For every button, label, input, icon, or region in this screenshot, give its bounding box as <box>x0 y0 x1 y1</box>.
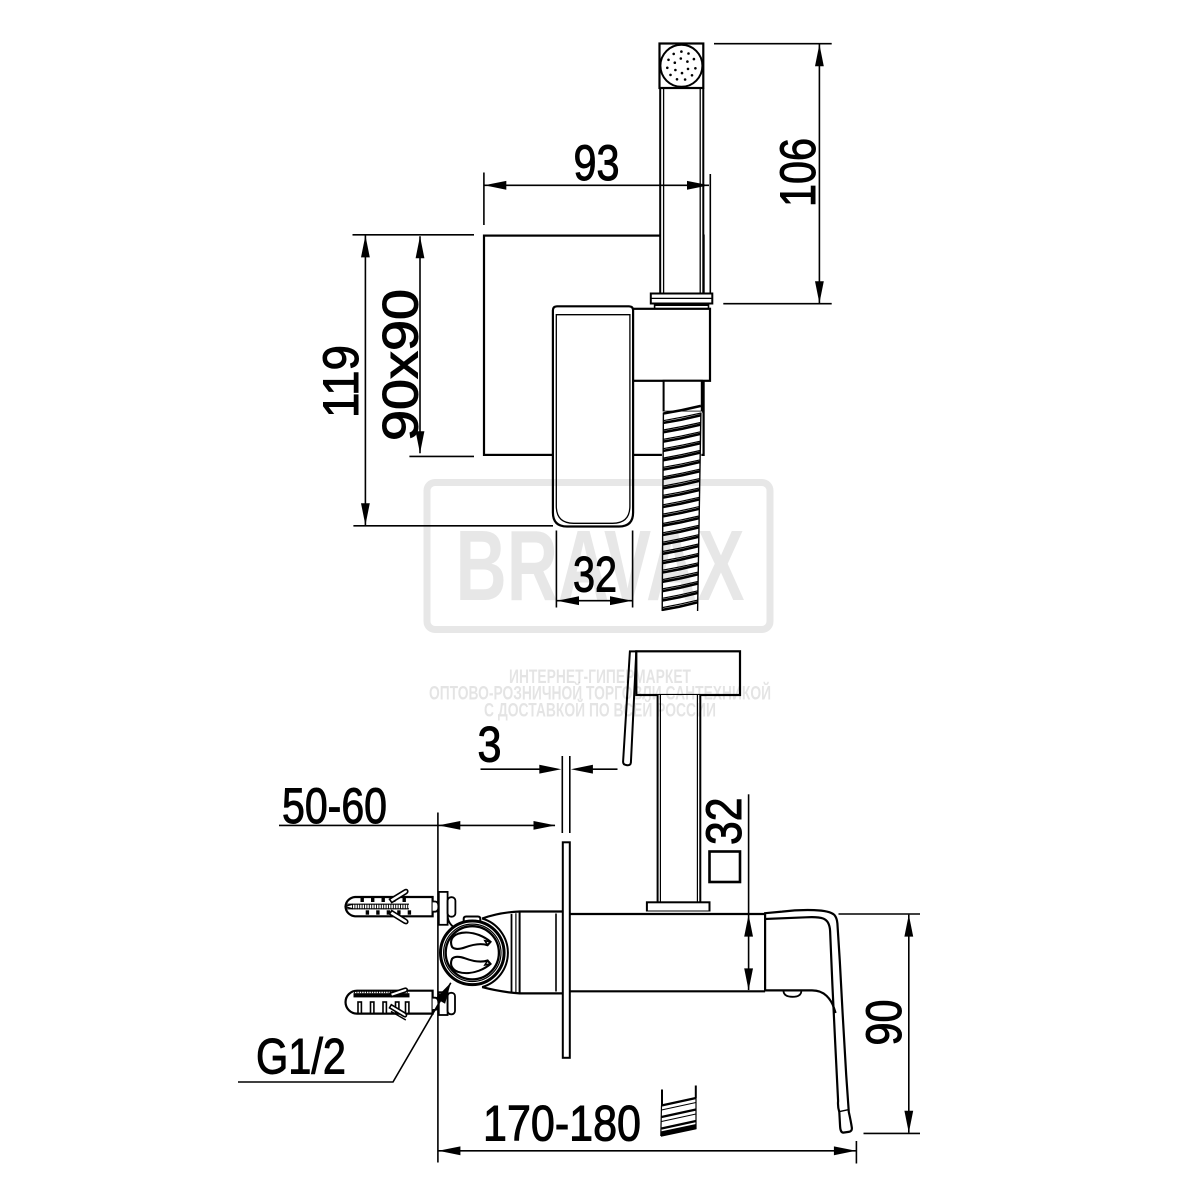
svg-text:93: 93 <box>574 135 620 191</box>
sprayer head (side view) <box>636 651 740 695</box>
svg-text:119: 119 <box>313 345 369 418</box>
svg-text:106: 106 <box>770 138 826 207</box>
sprayer trigger lever (side view) <box>623 651 636 765</box>
wall plate 90x90 (front view) <box>484 236 704 455</box>
svg-text:170-180: 170-180 <box>483 1096 641 1152</box>
dimension 32 (lever width) <box>556 531 632 608</box>
dimension 106 (vertical right) <box>714 44 832 304</box>
flexible hose (front view, spiral) <box>661 406 702 612</box>
lower mounting bracket and screw head <box>439 992 455 1015</box>
lower wall anchor with screw <box>346 988 439 1020</box>
svg-text:32: 32 <box>696 797 752 845</box>
upper mounting bracket and screw head <box>439 892 456 925</box>
svg-text:BRAVAX: BRAVAX <box>456 510 745 622</box>
mixer body (side view) <box>482 912 765 994</box>
dimension 90x90 (vertical) <box>409 236 474 456</box>
mixer lever (front view) <box>553 306 633 526</box>
wall reference line <box>437 813 439 1163</box>
dimension 50-60 (wall to plate) <box>279 824 555 826</box>
svg-text:С ДОСТАВКОЙ ПО ВСЕЙ РОССИИ: С ДОСТАВКОЙ ПО ВСЕЙ РОССИИ <box>484 698 716 722</box>
hose connector nut (front view) <box>664 381 702 412</box>
dimension 93 (horizontal) <box>484 173 710 294</box>
valve cartridge housing bump <box>464 917 481 923</box>
valve water inlet slots <box>451 933 490 973</box>
dimension 170-180 (overall depth) <box>438 1141 856 1164</box>
hand shower head (front view) <box>660 44 704 89</box>
hose break symbol (side view) <box>661 1086 697 1137</box>
valve cartridge (side view circle) <box>441 919 508 988</box>
svg-text:G1/2: G1/2 <box>256 1029 346 1085</box>
svg-text:90x90: 90x90 <box>373 289 429 441</box>
hand shower wand (front view) <box>660 89 703 295</box>
dimension square 32 (body section) <box>748 794 750 990</box>
label G1/2 with leader <box>238 983 451 1082</box>
watermark BRAVAX <box>427 483 771 722</box>
bracket arm curve (top) <box>448 917 456 929</box>
svg-text:3: 3 <box>478 717 502 773</box>
wall plate (side view) <box>563 842 570 1058</box>
dimension 119 (vertical left) <box>353 235 554 526</box>
svg-text:90: 90 <box>856 1000 912 1046</box>
dimension 90 (lever height) <box>839 914 921 1133</box>
holder escutcheon flange (side view) <box>647 902 710 911</box>
svg-text:50-60: 50-60 <box>282 778 387 834</box>
dimension 3 (plate thickness) <box>481 756 618 833</box>
shower holder body (front view) <box>631 309 710 381</box>
shower holder flange (front view) <box>651 294 713 304</box>
sprayer handle (side view) <box>658 695 701 902</box>
mixer lever (side view) <box>765 910 852 1133</box>
upper wall anchor with screw <box>345 890 439 924</box>
